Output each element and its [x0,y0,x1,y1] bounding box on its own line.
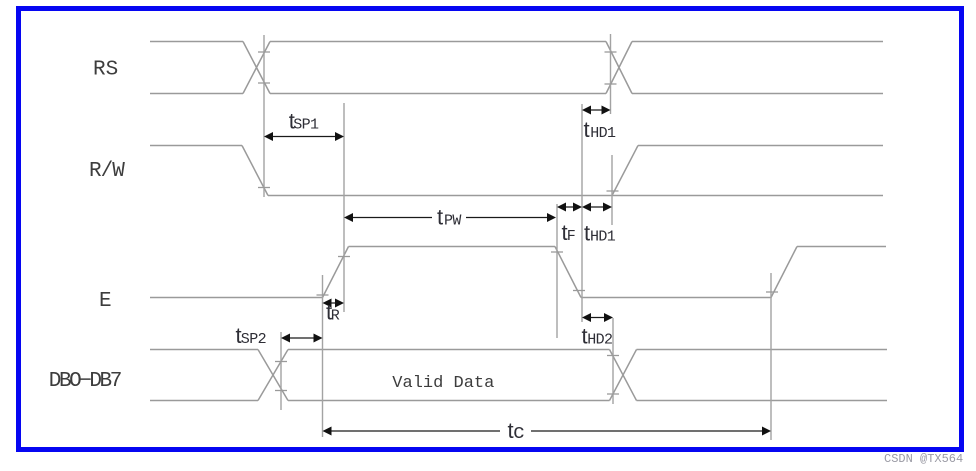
tick E rise start [317,294,329,296]
reference line V7 at RS hold [610,34,612,114]
signal E rising edge right [771,247,797,298]
dimension tC arrow [323,427,772,436]
signal E falling edge [555,247,581,298]
signal R/W falling edge [242,146,268,196]
svg-text:R: R [331,308,340,325]
tick E rise mid [338,256,350,258]
signal R/W low wire [268,195,883,197]
tick E fall start [551,251,563,253]
dimension tHD1 arrow lower [582,203,612,212]
signal RS low wire left [150,93,243,95]
signal RS crossover right [606,42,632,94]
signal RS crossover left [243,42,270,94]
svg-text:DBO−DB7: DBO−DB7 [49,370,121,393]
reference line V9 at DB hold [612,318,614,404]
tick RW fall [258,187,270,189]
dimension tR arrow [323,299,345,308]
signal R/W high wire right [638,145,883,147]
svg-text:t: t [584,117,590,142]
reference line V2 at E rise mid [343,103,345,312]
reference line V8 at RW hold [611,155,613,225]
signal R/W high wire left [150,145,242,147]
tick DB left X lower [275,390,287,392]
svg-text:HD1: HD1 [590,125,616,142]
tick DB right X upper [607,355,619,357]
svg-text:PW: PW [444,213,461,230]
label tF [562,220,576,245]
dimension tHD2 arrow [582,313,613,322]
reference line V10 at E rise right [770,273,772,440]
signal DB high wire mid [288,349,610,351]
signal DB low wire right [637,400,888,402]
signal RS low wire right [632,93,883,95]
signal DB high wire left [150,349,258,351]
tick E fall end [573,290,585,292]
dimension tPW arrow [344,213,556,222]
svg-text:t: t [437,205,443,230]
signal E high wire [349,246,556,248]
signal E rising edge [323,247,349,298]
svg-text:CSDN @TX564: CSDN @TX564 [884,452,963,466]
signal E high wire right [797,246,886,248]
signal DB low wire left [150,400,258,402]
reference line V1 at RS/RW transition [263,35,265,197]
tick RS right X lower [605,83,617,85]
dimension tSP1 arrow [264,132,344,141]
dimension tSP2 arrow [281,334,323,343]
signal DB high wire right [637,349,888,351]
tick RS right X upper [605,51,617,53]
svg-text:c: c [513,422,525,445]
dimension tHD1 arrow top [582,106,611,115]
signal DB crossover right [610,350,637,401]
tick RS left X lower [258,82,270,84]
label tHD2 [582,324,613,349]
reference line V6 at E fall end [581,104,583,322]
svg-text:R/W: R/W [89,160,125,183]
label tHD1 top [584,117,617,142]
label tSP1 [289,109,319,134]
signal RS high wire right [632,41,883,43]
svg-text:E: E [99,290,112,313]
label tPW [437,205,461,230]
signal RS low wire mid [270,93,606,95]
signal DB crossover left [258,350,288,401]
svg-text:SP2: SP2 [241,331,266,348]
tick RS left X upper [258,51,270,53]
reference line V4 at E rise start [322,275,324,437]
label tHD1 lower [584,221,616,246]
reference line V5 at E fall start [556,204,558,338]
label tC [508,418,526,445]
svg-text:HD2: HD2 [587,332,612,349]
signal E low wire left [150,297,323,299]
signal R/W rising edge [612,146,638,196]
svg-text:Valid Data: Valid Data [392,374,494,393]
svg-text:F: F [567,228,575,245]
signal DB low wire mid [288,400,610,402]
tick DB left X upper [275,361,287,363]
svg-text:HD1: HD1 [590,229,616,246]
tick DB right X lower [607,393,619,395]
dimension tF arrow [557,203,582,212]
tick RW rise [607,190,619,192]
label tR [326,300,340,325]
reference line V3 at DB setup [280,332,282,410]
svg-text:SP1: SP1 [293,117,319,134]
tick E rise right start [766,291,778,293]
signal RS high wire left [150,41,243,43]
label tSP2 [236,323,267,348]
svg-text:RS: RS [93,59,118,82]
signal E low wire mid [581,297,771,299]
signal RS high wire mid [270,41,606,43]
